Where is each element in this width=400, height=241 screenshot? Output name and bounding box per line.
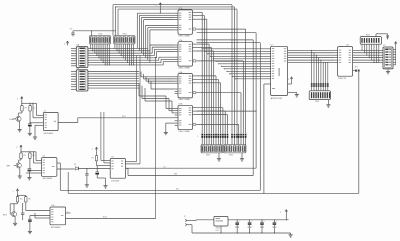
- wire U1 out: [58, 116, 178, 123]
- svg-text:74HC 595A: 74HC 595A: [178, 130, 190, 133]
- capacitor C12: [376, 34, 389, 40]
- wire block3 top: [17, 193, 26, 196]
- supervisor U6: [42, 156, 57, 181]
- wire top loop 2: [115, 6, 235, 133]
- svg-text:U2A: U2A: [179, 7, 184, 10]
- svg-text:74HC 595A: 74HC 595A: [178, 98, 190, 101]
- capacitor C1: [28, 111, 32, 133]
- RN7 pin drops: [361, 44, 379, 63]
- ground Q3: [13, 217, 17, 226]
- wire U10 out stub: [66, 211, 71, 213]
- svg-text:AT89C2051: AT89C2051: [271, 97, 283, 100]
- wires U6 left: [26, 151, 42, 173]
- wire JP1 down: [358, 72, 360, 193]
- svg-text:5: 5: [92, 149, 93, 151]
- shift register U2: [175, 7, 198, 37]
- svg-text:D1: D1: [74, 164, 76, 166]
- power +5V block1: [17, 97, 23, 102]
- wire U9 out: [126, 168, 129, 175]
- wire U10 out buzzer: [66, 57, 157, 219]
- connector J1 block A: [71, 44, 88, 68]
- ground C3: [85, 185, 89, 187]
- svg-text:74HC 595A: 74HC 595A: [178, 35, 190, 38]
- svg-text:a: a: [67, 211, 68, 213]
- pad row P1: [197, 134, 246, 139]
- regulator ground pin: [220, 226, 221, 234]
- capacitor C4: [95, 168, 105, 185]
- wire long bottom: [68, 172, 359, 193]
- svg-text:5: 5: [155, 5, 156, 7]
- svg-text:3: 3: [64, 44, 65, 46]
- RN1 pin drops: [90, 44, 110, 66]
- wire tap U5 rck: [197, 111, 257, 112]
- resistor network RN3: [201, 145, 223, 157]
- svg-text:74HC 595A: 74HC 595A: [178, 66, 190, 69]
- resistor R2: [29, 106, 35, 111]
- resistor network RN7: [360, 35, 381, 45]
- ground C6: [28, 231, 32, 233]
- regulator U11: [214, 216, 228, 232]
- svg-text:R3: R3: [24, 155, 26, 157]
- resistor R7: [92, 152, 98, 166]
- wire long bottom 2: [60, 166, 260, 190]
- wire C9 to resistor networks: [73, 30, 116, 35]
- svg-text:DS1302: DS1302: [111, 180, 120, 182]
- svg-text:R5: R5: [20, 199, 22, 201]
- ground RN3: [217, 153, 221, 161]
- wire gnd bus: [192, 232, 291, 234]
- connector J1 block B: [71, 68, 88, 91]
- wires U9 left: [101, 112, 110, 163]
- svg-text:U3A: U3A: [179, 39, 184, 42]
- svg-text:MC34064: MC34064: [51, 227, 61, 229]
- ground block1: [33, 125, 37, 139]
- diode D1: [74, 164, 79, 170]
- svg-text:U4A: U4A: [179, 71, 184, 74]
- power +5V X2: [395, 42, 397, 65]
- svg-text:R1: R1: [25, 108, 27, 110]
- power +5V block3: [13, 189, 19, 194]
- ground X2: [386, 69, 390, 74]
- wire U6 out2: [57, 168, 75, 170]
- wire block2 top: [20, 150, 36, 161]
- power +5V top: [155, 3, 161, 14]
- ground C2: [27, 178, 31, 180]
- power +5V connector: [64, 41, 69, 46]
- wire diode to U9: [79, 168, 111, 169]
- shift register U5: [175, 103, 198, 133]
- bundle nested loops: [197, 29, 245, 133]
- capacitor C16: [272, 219, 278, 233]
- resistor R1: [21, 106, 27, 111]
- pad row P2 with taps: [311, 50, 329, 91]
- capacitor C3: [85, 168, 88, 184]
- wire U6 out1: [57, 163, 60, 166]
- wire block1 top: [21, 101, 36, 115]
- supervisor U1: [43, 110, 58, 134]
- wires bus A to U2: [137, 13, 174, 62]
- capacitor C13: [235, 219, 241, 233]
- svg-text:1: 1: [197, 136, 198, 138]
- resistor network RN1: [89, 33, 110, 44]
- U7 right pin wires: [288, 50, 335, 62]
- ground psu: [289, 233, 293, 237]
- wires U9 right: [126, 55, 141, 164]
- svg-text:5: 5: [16, 147, 17, 149]
- transistor Q3: [3, 202, 18, 217]
- resistor network RN2: [114, 33, 135, 44]
- ground U7: [288, 93, 299, 98]
- bus B horizontals: [88, 72, 139, 89]
- svg-text:5: 5: [280, 212, 281, 214]
- supervisor U10: [50, 205, 66, 229]
- resistor R4: [29, 153, 35, 158]
- svg-text:74HC14: 74HC14: [338, 78, 347, 80]
- stairs bus B to U4: [141, 72, 175, 90]
- svg-text:LOAD: LOAD: [9, 118, 15, 121]
- bundle from IC pins: [197, 12, 228, 133]
- resistor R5: [16, 197, 22, 202]
- wires U1 left: [29, 103, 43, 126]
- resistor R3: [20, 153, 26, 158]
- ground Q1: [18, 122, 22, 132]
- connector X2: [383, 45, 396, 69]
- svg-text:5: 5: [288, 79, 289, 81]
- ground RN6: [326, 100, 330, 108]
- capacitor C2: [28, 158, 32, 177]
- pad row to RN pins: [202, 138, 245, 145]
- capacitor C14: [248, 219, 254, 233]
- rtc U9: [110, 157, 125, 183]
- wire top loop 1: [113, 5, 232, 134]
- wires U10 left: [23, 202, 50, 219]
- bus A horizontals: [88, 48, 163, 65]
- capacitor C9: [70, 29, 75, 37]
- capacitor C5: [21, 203, 24, 220]
- transistor Q1: [9, 111, 22, 121]
- stairs bus A to U3: [150, 45, 175, 65]
- wire riser 2: [197, 40, 254, 176]
- power +5V out: [280, 210, 287, 221]
- wire riser 4: [263, 84, 270, 194]
- U8 right pin wires: [353, 50, 383, 62]
- shift register U3: [175, 39, 198, 69]
- capacitor C6: [28, 219, 32, 231]
- svg-text:MC34064: MC34064: [43, 178, 53, 180]
- svg-text:JP1: JP1: [355, 67, 358, 69]
- resistor R6: [25, 197, 31, 202]
- wire WR line: [128, 174, 253, 176]
- svg-text:J2: J2: [184, 216, 186, 218]
- power +5V U7: [288, 77, 293, 84]
- inverter U8: [334, 45, 352, 81]
- connector J2 AC: [184, 216, 214, 233]
- wire OC line: [110, 166, 256, 168]
- ground RN4: [240, 153, 244, 161]
- svg-text:ELR: ELR: [3, 214, 7, 216]
- transistor Q2: [7, 158, 22, 168]
- ground under U5: [164, 123, 175, 135]
- svg-text:R6: R6: [28, 199, 30, 201]
- svg-text:WR: WR: [7, 166, 11, 168]
- RN2 pin drops: [114, 44, 134, 66]
- svg-text:R7: R7: [92, 157, 94, 159]
- jumper JP1: [353, 67, 360, 72]
- wire vout: [228, 219, 289, 221]
- wire riser 3: [197, 43, 261, 191]
- svg-text:U5A: U5A: [179, 103, 184, 106]
- wire riser 1: [197, 33, 257, 169]
- wire R7 node: [97, 166, 111, 169]
- wire top loop 3: [118, 9, 237, 133]
- ground C4: [103, 186, 107, 188]
- taps to U7 left pins: [202, 48, 271, 79]
- svg-text:MC34064: MC34064: [44, 133, 54, 135]
- ground Q2: [18, 168, 22, 178]
- resistor network RN4: [224, 145, 247, 157]
- stairs bus B to U5: [139, 83, 175, 113]
- svg-text:5: 5: [17, 99, 18, 101]
- svg-text:5: 5: [13, 191, 14, 193]
- capacitor C15: [260, 219, 266, 233]
- power +5V block2: [16, 145, 22, 150]
- power +5V block4: [92, 147, 98, 152]
- ground C1: [28, 133, 32, 135]
- shift register U4: [175, 71, 198, 101]
- resistor network RN6: [309, 91, 330, 103]
- microcontroller U7: [271, 44, 288, 100]
